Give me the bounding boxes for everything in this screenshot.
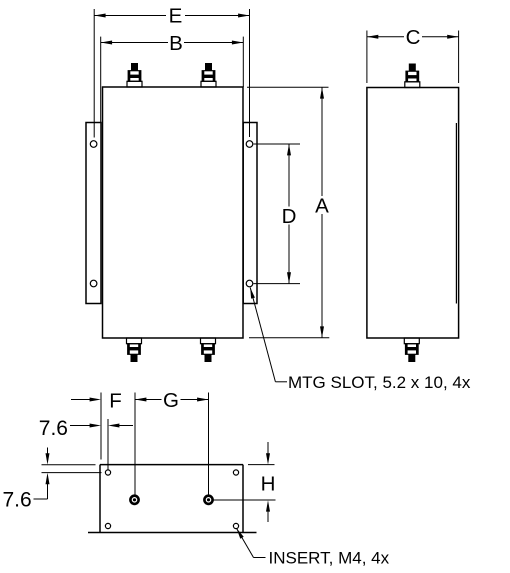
dimension E bbox=[94, 5, 249, 138]
svg-text:A: A bbox=[315, 194, 329, 217]
dimension H bbox=[212, 442, 276, 522]
left flange top slot hole bbox=[90, 141, 97, 148]
svg-text:7.6: 7.6 bbox=[3, 489, 32, 512]
left mounting flange bbox=[86, 123, 101, 304]
right flange bottom slot hole bbox=[246, 280, 253, 287]
right flange top slot hole bbox=[246, 141, 253, 148]
connector top-left (front view) bbox=[127, 63, 142, 87]
svg-text:D: D bbox=[282, 205, 297, 228]
svg-text:F: F bbox=[109, 389, 122, 412]
connector bottom (side view) bbox=[404, 338, 419, 362]
bottom view plate outline bbox=[88, 465, 257, 533]
connector bottom view right bbox=[204, 496, 212, 504]
dimension 7.6 horizontal bbox=[39, 417, 133, 470]
dimension B bbox=[101, 32, 244, 123]
connector bottom view left bbox=[130, 496, 138, 504]
svg-text:C: C bbox=[406, 26, 421, 49]
insert hole bottom-left bbox=[105, 523, 110, 528]
connector bottom-right (front view) bbox=[201, 338, 216, 362]
side view flange edge line bbox=[455, 123, 457, 304]
svg-text:7.6: 7.6 bbox=[39, 417, 68, 440]
connector bottom-left (front view) bbox=[127, 338, 142, 362]
svg-text:INSERT, M4, 4x: INSERT, M4, 4x bbox=[269, 548, 390, 567]
connector top (side view) bbox=[405, 64, 420, 88]
dimension A bbox=[247, 87, 329, 338]
svg-text:E: E bbox=[169, 5, 183, 28]
front view body bbox=[103, 87, 244, 338]
connector top-right (front view) bbox=[201, 63, 216, 87]
insert hole top-right bbox=[233, 470, 238, 475]
svg-text:B: B bbox=[169, 32, 183, 55]
MTG SLOT leader and callout bbox=[250, 288, 471, 392]
insert hole top-left bbox=[105, 470, 110, 475]
right mounting flange bbox=[243, 123, 257, 304]
insert hole bottom-right bbox=[233, 523, 238, 528]
dimension G bbox=[135, 389, 209, 495]
dimension D bbox=[254, 144, 301, 284]
left flange bottom slot hole bbox=[90, 280, 97, 287]
svg-text:G: G bbox=[163, 389, 179, 412]
svg-text:MTG SLOT, 5.2 x 10, 4x: MTG SLOT, 5.2 x 10, 4x bbox=[288, 373, 471, 392]
svg-text:H: H bbox=[261, 472, 276, 495]
dimension C bbox=[367, 26, 459, 83]
INSERT leader and callout bbox=[237, 528, 390, 567]
dimension 7.6 vertical bbox=[3, 448, 102, 512]
side view body bbox=[367, 88, 459, 339]
dimension F bbox=[71, 389, 146, 459]
